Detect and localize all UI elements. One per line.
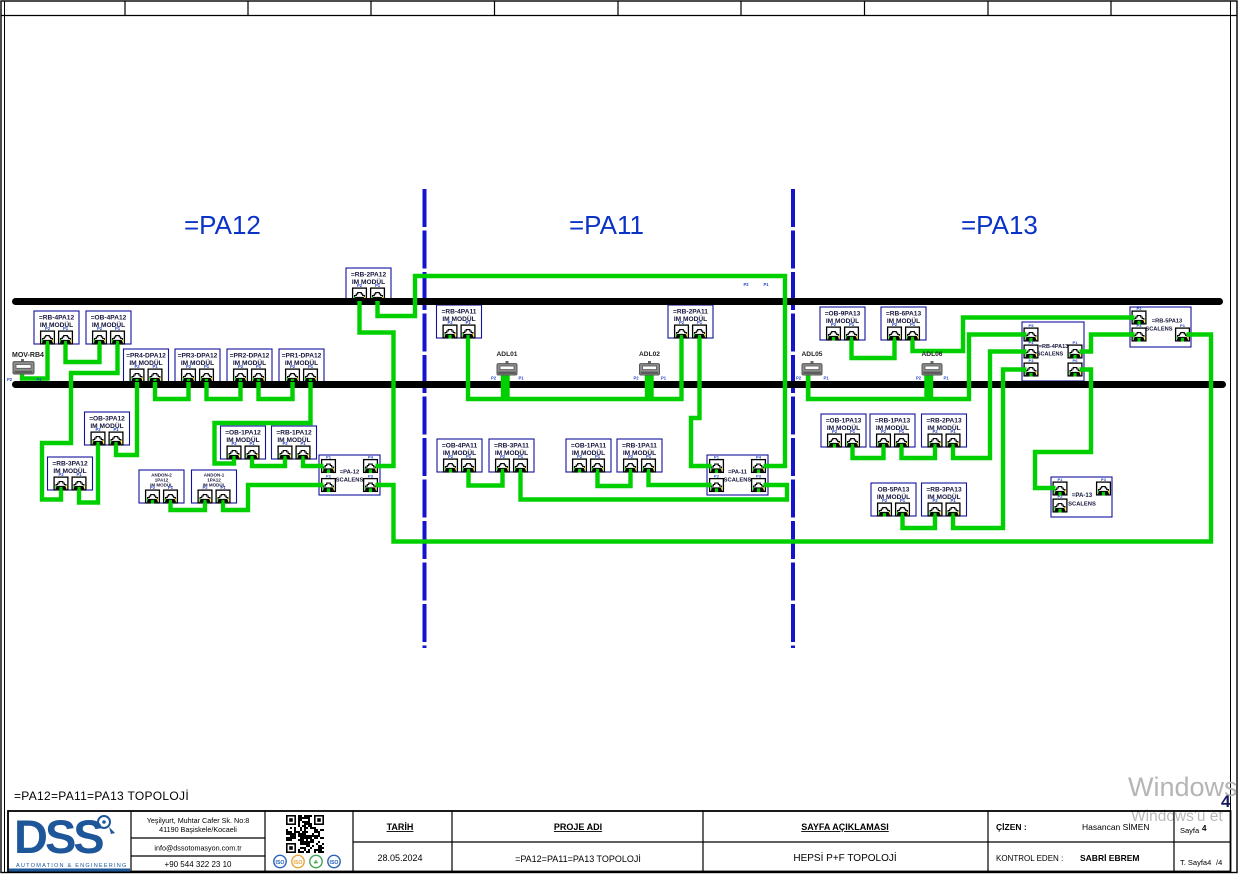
wire OB-1PA11 P1 to RB-1PA11 P2 <box>598 472 631 486</box>
svg-text:=OB-9PA13: =OB-9PA13 <box>825 311 861 318</box>
ISO certification badges <box>274 855 340 867</box>
svg-text:+90 544 322 23 10: +90 544 322 23 10 <box>165 860 233 869</box>
page inner frame right line <box>1230 2 1232 873</box>
svg-text:DSS: DSS <box>14 810 103 863</box>
module =OB-1PA11 IM MODÜL <box>566 439 611 473</box>
svg-text:41190 Başiskele/Kocaeli: 41190 Başiskele/Kocaeli <box>159 825 237 834</box>
svg-text:SCALENS: SCALENS <box>1068 502 1096 508</box>
svg-text:=RB-3PA13: =RB-3PA13 <box>926 487 962 494</box>
svg-text:ISO: ISO <box>294 860 303 866</box>
svg-text:P2: P2 <box>796 376 802 381</box>
module =RB-6PA13 IM MODÜL <box>881 307 926 341</box>
svg-text:=PA11: =PA11 <box>569 210 644 240</box>
svg-text:=RB-2PA13: =RB-2PA13 <box>926 418 962 425</box>
wire RB-1PA11 P1 to PA-11 SCALENS P2 <box>649 472 711 485</box>
svg-text:P1: P1 <box>326 455 332 460</box>
device ADL01 <box>491 351 524 381</box>
svg-text:T. Sayfa4: T. Sayfa4 <box>1180 858 1211 867</box>
module =RB-3PA11 IM MODÜL <box>489 439 534 473</box>
svg-text:info@dssotomasyon.com.tr: info@dssotomasyon.com.tr <box>154 844 242 853</box>
svg-text:=PA13: =PA13 <box>961 210 1038 240</box>
wire RB-1PA13 P1 to RB-2PA13 P2 <box>902 447 936 458</box>
wire ANDON-1 P1 to PA-12 SCALENS P2 <box>223 485 322 510</box>
wire RB-4PA13 SCALENS P6 to PA-13 SCALENS P1 <box>1035 370 1091 489</box>
wire ADL06 port stub <box>925 374 934 401</box>
svg-text:=RB-1PA11: =RB-1PA11 <box>622 443 657 450</box>
module =RB-1PA12 IM MODÜL <box>272 426 317 460</box>
svg-text:=OB-1PA11: =OB-1PA11 <box>571 443 607 450</box>
svg-text:=RB-1PA12: =RB-1PA12 <box>276 430 312 437</box>
svg-text:P4: P4 <box>1029 340 1035 345</box>
switch =RB-5PA13 SCALENS <box>1130 306 1191 347</box>
company address cell <box>147 816 249 869</box>
svg-text:P4: P4 <box>368 455 374 460</box>
module =PR4-DPA12 IM MODÜL <box>124 349 169 383</box>
svg-text:P3: P3 <box>1101 477 1107 482</box>
CIZEN / KONTROL EDEN cell <box>996 822 1150 863</box>
wire ADL01 P1 to ADL02 P2 <box>508 374 648 399</box>
svg-text:SABRİ EBREM: SABRİ EBREM <box>1080 853 1140 863</box>
svg-text:☘: ☘ <box>314 860 319 866</box>
module ANDON-2 1PA12 IM MODÜL <box>139 470 184 504</box>
wire RB-1PA12 P1 to PA-12 SCALENS P1 <box>303 459 322 466</box>
separator dashed line between PA12 and PA11 <box>423 189 427 648</box>
svg-text:=PR2-DPA12: =PR2-DPA12 <box>230 353 270 360</box>
svg-text:P1: P1 <box>943 376 949 381</box>
svg-text:SCALENS: SCALENS <box>724 478 752 484</box>
switch =PA-11 SCALENS <box>707 455 768 495</box>
wire PR2-DPA12 P1 to PR1-DPA12 P2 <box>259 382 293 399</box>
svg-text:P2: P2 <box>7 377 13 382</box>
svg-text:=OB-1PA12: =OB-1PA12 <box>225 430 261 437</box>
svg-text:P3: P3 <box>1029 358 1035 363</box>
svg-text:=RB-2PA12: =RB-2PA12 <box>351 272 387 279</box>
svg-text:AUTOMATION & ENGINEERING: AUTOMATION & ENGINEERING <box>16 863 128 869</box>
svg-text:=PA-12: =PA-12 <box>340 470 359 476</box>
wire RB-4PA11 P1 to ADL01 P2 <box>468 338 503 399</box>
svg-text:=PA-13: =PA-13 <box>1072 492 1093 499</box>
module =OB-9PA13 IM MODÜL <box>820 307 865 341</box>
module =RB-1PA13 IM MODÜL <box>870 414 915 448</box>
title block frame <box>8 811 1231 872</box>
ruler strip bottom line <box>2 15 1238 17</box>
switch =PA-12 SCALENS <box>319 455 380 495</box>
svg-text:ADL02: ADL02 <box>639 351 660 358</box>
svg-text:P2: P2 <box>1137 306 1143 311</box>
SAYFA ACIKLAMASI cell <box>793 822 896 864</box>
wire RB-4PA13 SCALENS P1 to RB-5PA13 SCALENS P3 <box>1081 335 1133 352</box>
svg-text:ÇİZEN :: ÇİZEN : <box>996 822 1027 832</box>
svg-text:ADL05: ADL05 <box>802 351 823 358</box>
svg-text:=PA12: =PA12 <box>184 210 261 240</box>
svg-text:=RB-5PA13: =RB-5PA13 <box>1152 319 1182 325</box>
wire ADL06 P1 to RB-4PA13 SCALENS P5 <box>931 335 1025 400</box>
module OB-5PA13 IM MODÜL <box>871 483 916 517</box>
svg-text:=RB-4PA12: =RB-4PA12 <box>39 315 75 322</box>
svg-text:=PA-11: =PA-11 <box>728 470 748 476</box>
svg-text:SCALENS: SCALENS <box>1145 327 1172 333</box>
svg-text:Yeşilyurt, Muhtar Cafer Sk. No: Yeşilyurt, Muhtar Cafer Sk. No:8 <box>147 816 249 825</box>
wire OB-4PA11 P1 to RB-3PA11 P2 <box>469 472 503 486</box>
wire ANDON-2 P1 to ANDON-1 P2 <box>171 503 206 510</box>
svg-text:P2: P2 <box>743 282 749 287</box>
svg-text:P3: P3 <box>756 474 762 479</box>
module =OB-3PA12 IM MODÜL <box>85 412 130 446</box>
svg-text:MOV-RB4: MOV-RB4 <box>12 352 44 359</box>
switch =RB-4PA13 SCALENS <box>1022 322 1084 381</box>
wire RB-6PA13 P1 to RB-5PA13 SCALENS P2 <box>913 318 1134 352</box>
wire MOV-RB4 P1 to RB-4PA12 P2 <box>22 344 48 379</box>
separator dashed line between PA11 and PA13 <box>791 189 795 648</box>
svg-text:4: 4 <box>1221 792 1231 811</box>
svg-text:P2: P2 <box>1058 494 1064 499</box>
wire ADL02 P1 to RB-2PA11 P2 <box>652 338 682 399</box>
svg-text:P1: P1 <box>518 376 524 381</box>
device ADL02 <box>633 351 666 381</box>
svg-text:P3: P3 <box>1137 323 1143 328</box>
module ANDON-1 1PA12 IM MODÜL <box>192 470 237 504</box>
wire ADL05 P1 to ADL06 P2 <box>808 374 927 399</box>
Sayfa cell <box>1180 824 1222 867</box>
wire PR3-DPA12 P1 to PR2-DPA12 P2 <box>207 382 241 399</box>
svg-text:=OB-4PA12: =OB-4PA12 <box>91 315 127 322</box>
svg-text:OB-5PA13: OB-5PA13 <box>878 487 910 494</box>
svg-text:=PA12=PA11=PA13 TOPOLOJİ: =PA12=PA11=PA13 TOPOLOJİ <box>515 854 641 864</box>
svg-text:=PR3-DPA12: =PR3-DPA12 <box>178 353 218 360</box>
svg-text:=RB-4PA11: =RB-4PA11 <box>442 309 477 316</box>
svg-text:=OB-4PA11: =OB-4PA11 <box>442 443 478 450</box>
svg-text:ISO: ISO <box>276 860 285 866</box>
svg-text:P2: P2 <box>633 376 639 381</box>
svg-text:PROJE ADI: PROJE ADI <box>554 822 602 832</box>
module =OB-4PA11 IM MODÜL <box>437 439 482 473</box>
svg-text:P2: P2 <box>916 376 922 381</box>
module =RB-3PA12 IM MODÜL <box>48 457 93 491</box>
svg-text:=RB-6PA13: =RB-6PA13 <box>886 311 922 318</box>
module =RB-4PA12 IM MODÜL <box>34 311 79 345</box>
wire OB-1PA13 P1 to RB-1PA13 P2 <box>853 447 884 458</box>
svg-text:SAYFA AÇIKLAMASI: SAYFA AÇIKLAMASI <box>801 822 889 832</box>
svg-text:P1: P1 <box>661 376 667 381</box>
svg-text:4: 4 <box>1202 824 1207 833</box>
svg-text:=RB-3PA12: =RB-3PA12 <box>52 461 88 468</box>
svg-text:P1: P1 <box>1073 340 1079 345</box>
page inner frame left line <box>4 2 6 873</box>
svg-text:=PA12=PA11=PA13 TOPOLOJİ: =PA12=PA11=PA13 TOPOLOJİ <box>14 789 189 803</box>
module =RB-4PA11 IM MODÜL <box>437 305 482 339</box>
wire RB-3PA13 P1 to RB-4PA13 SCALENS P3 <box>953 370 1025 529</box>
svg-text:KONTROL EDEN :: KONTROL EDEN : <box>996 854 1063 863</box>
wire ADL05 port stub <box>806 374 811 401</box>
svg-text:P3: P3 <box>368 474 374 479</box>
TARIH cell <box>377 822 422 863</box>
wire RB-3PA11 P1 to PA-11 SCALENS P3 <box>521 472 788 500</box>
svg-text:=OB-1PA13: =OB-1PA13 <box>826 418 862 425</box>
module =RB-2PA12 IM MODÜL <box>346 268 391 302</box>
device ADL06 <box>916 351 949 381</box>
wire RB-2PA12 P2 to PA-12 SCALENS P4 <box>360 301 394 466</box>
svg-text:P2: P2 <box>714 474 720 479</box>
wire RB-2PA11 P1 to PA-11 SCALENS P1 <box>691 338 710 466</box>
module =RB-2PA11 IM MODÜL <box>668 305 713 339</box>
svg-text:P1: P1 <box>714 455 720 460</box>
module =PR2-DPA12 IM MODÜL <box>227 349 272 383</box>
bus segment coupler rail 1 (upper) <box>16 298 1220 305</box>
switch =PA-13 SCALENS <box>1051 477 1112 517</box>
wire OB-9PA13 P1 to RB-6PA13 P2 <box>852 340 895 358</box>
svg-text:Hasancan SİMEN: Hasancan SİMEN <box>1082 822 1150 832</box>
svg-text:=RB-4PA13: =RB-4PA13 <box>1039 344 1068 350</box>
module =RB-3PA13 IM MODÜL <box>922 483 967 517</box>
svg-text:P2: P2 <box>326 474 332 479</box>
wire OB-1PA12 P1 to RB-1PA12 P2 <box>252 459 285 466</box>
module =OB-4PA12 IM MODÜL <box>86 311 131 345</box>
svg-text:SCALENS: SCALENS <box>1037 352 1064 358</box>
wire PR4-DPA12 P1 to PR3-DPA12 P2 <box>155 382 189 399</box>
svg-text:TARİH: TARİH <box>387 822 414 832</box>
svg-text:P4: P4 <box>756 455 762 460</box>
svg-text:=RB-2PA11: =RB-2PA11 <box>673 309 708 316</box>
wire attachment tabs on SCALENS ports <box>319 315 1191 490</box>
wire ADL01 port stub <box>501 374 510 401</box>
bus segment coupler rail 2 (lower) <box>16 381 1223 388</box>
svg-text:P2: P2 <box>491 376 497 381</box>
svg-text:P1: P1 <box>1180 323 1186 328</box>
svg-text:=OB-3PA12: =OB-3PA12 <box>89 416 125 423</box>
wire ADL02 port stub <box>645 374 654 401</box>
svg-text:ADL01: ADL01 <box>497 351 518 358</box>
svg-text:=RB-1PA13: =RB-1PA13 <box>875 418 911 425</box>
svg-text:P5: P5 <box>1029 323 1035 328</box>
DSS logo <box>9 810 130 872</box>
module =PR1-DPA12 IM MODÜL <box>279 349 324 383</box>
module =OB-1PA13 IM MODÜL <box>821 414 866 448</box>
wire RB-3PA12 P1 to OB-3PA12 P2 <box>79 445 98 503</box>
svg-text:P1: P1 <box>1058 477 1064 482</box>
svg-text:=PR4-DPA12: =PR4-DPA12 <box>126 353 166 360</box>
svg-text:SCALENS: SCALENS <box>336 478 364 484</box>
svg-text:/4: /4 <box>1216 858 1222 867</box>
module =RB-1PA11 IM MODÜL <box>617 439 662 473</box>
svg-text:=PR1-DPA12: =PR1-DPA12 <box>282 353 322 360</box>
wire PR1-DPA12 P1 to OB-1PA12 P2 <box>215 382 311 464</box>
wire RB-2PA13 P1 to RB-4PA13 SCALENS P4 <box>953 352 1025 459</box>
device ADL05 <box>796 351 829 381</box>
wire RB-4PA12 P1 to OB-4PA12 P2 <box>66 344 100 362</box>
wire OB-5PA13 P1 to RB-3PA13 P2 <box>903 516 936 528</box>
wire RB-2PA12 P1 to PA-11 SCALENS P4 <box>378 276 786 466</box>
svg-text:ISO: ISO <box>330 860 339 866</box>
svg-text:P1: P1 <box>763 282 769 287</box>
QR code <box>286 815 324 853</box>
module =OB-1PA12 IM MODÜL <box>221 426 266 460</box>
svg-text:Sayfa: Sayfa <box>1180 826 1200 835</box>
module =RB-2PA13 IM MODÜL <box>922 414 967 448</box>
svg-text:ADL06: ADL06 <box>922 351 943 358</box>
svg-text:P1: P1 <box>823 376 829 381</box>
wire PA-12 SCALENS P3 to RB-5PA13 SCALENS P1 (bottom loop) <box>377 335 1211 542</box>
PROJE ADI cell <box>515 822 641 864</box>
device MOV-RB4 <box>7 359 42 382</box>
ruler strip tick dividers <box>125 2 1111 16</box>
wire OB-4PA12 P1 to RB-3PA12 P2 <box>42 344 118 500</box>
svg-text:P6: P6 <box>1073 358 1079 363</box>
svg-text:P1: P1 <box>36 377 42 382</box>
module =PR3-DPA12 IM MODÜL <box>175 349 220 383</box>
svg-text:=RB-3PA11: =RB-3PA11 <box>494 443 529 450</box>
svg-text:28.05.2024: 28.05.2024 <box>377 853 422 863</box>
svg-text:HEPSİ P+F TOPOLOJİ: HEPSİ P+F TOPOLOJİ <box>793 851 896 864</box>
wire OB-3PA12 P1 to PR4-DPA12 P2 <box>116 382 137 455</box>
